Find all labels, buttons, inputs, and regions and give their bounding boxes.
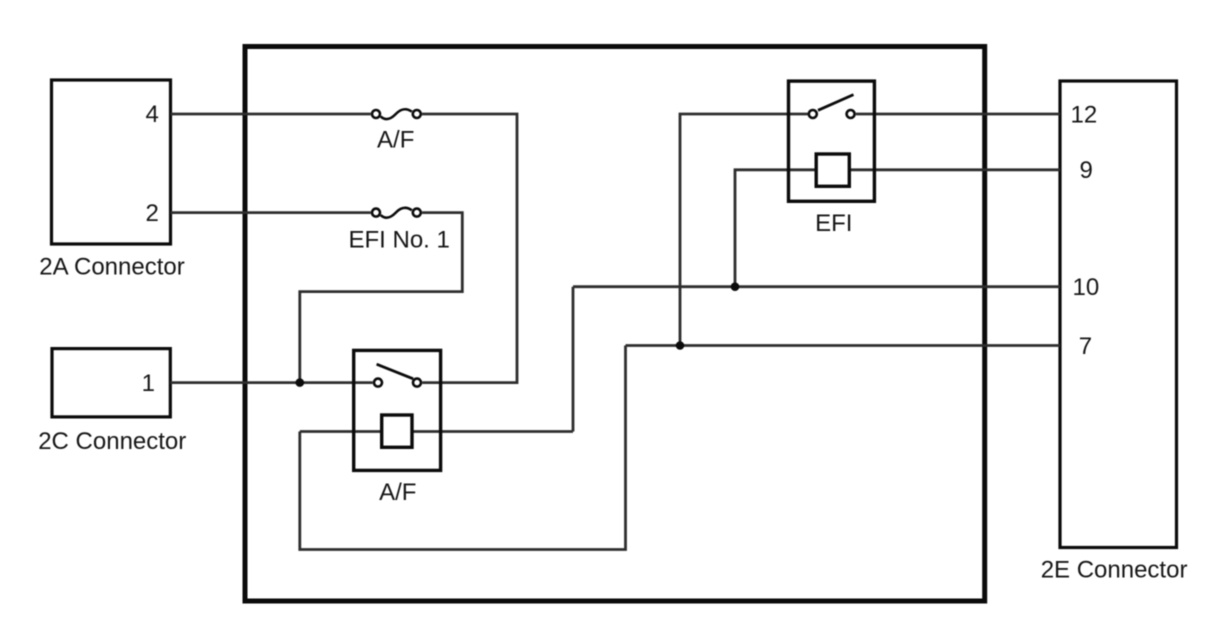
wire: 2A pin 2 to fuse EFI No. 1 [171,211,371,214]
connector 2E [1060,81,1177,548]
wire: fuse A/F to A/F relay switch (right side, down x=517) [422,114,517,383]
wire: A/F relay coil left to pin 7 net (bottom route) [300,346,626,550]
svg-text:7: 7 [1079,333,1092,360]
svg-text:A/F: A/F [377,127,414,154]
wire: fuse EFI No. 1 to junction at pin-1 net [300,213,463,383]
svg-text:2A Connector: 2A Connector [39,253,184,280]
connector 2C [52,349,170,417]
wire: A/F relay coil (through) [300,430,573,433]
wire: 2C pin 1 to A/F relay switch left [170,381,372,384]
svg-text:2: 2 [145,200,158,227]
svg-text:12: 12 [1071,101,1098,128]
fuse A/F [372,109,421,119]
svg-text:10: 10 [1073,274,1100,301]
svg-text:1: 1 [142,370,155,397]
junction block J/B (outer box) [245,47,985,602]
junction dot: EFI switch branch on pin 7 net [676,341,685,350]
wire: pin 7 net horizontal to 2E pin 7 [626,344,1061,347]
connector 2A [52,80,171,244]
junction dot: EFI coil branch on pin 10 net [731,282,740,291]
svg-text:4: 4 [145,101,158,128]
svg-text:A/F: A/F [379,479,416,506]
wire: pin 10 net horizontal to 2E pin 10 [573,285,1060,288]
wire: EFI relay coil left down to pin 10 net [735,170,820,287]
svg-text:EFI No. 1: EFI No. 1 [349,226,450,253]
wire: EFI relay coil right to 2E pin 9 [845,168,1060,171]
svg-text:2C Connector: 2C Connector [38,428,186,455]
wire: EFI relay switch right to 2E pin 12 [856,113,1060,116]
relay EFI [789,81,875,201]
relay A/F [354,350,441,470]
wire: A/F relay coil right up to pin 10 net [572,287,575,432]
svg-text:2E Connector: 2E Connector [1041,557,1188,584]
wire: EFI relay switch left down to pin 7 net [680,114,808,346]
wire: 2A pin 4 to fuse A/F [171,113,371,116]
junction dot: EFI No.1 fuse to pin-1 wire [296,378,305,387]
svg-text:EFI: EFI [815,210,852,237]
fuse EFI No. 1 [372,208,421,218]
svg-text:9: 9 [1080,157,1093,184]
